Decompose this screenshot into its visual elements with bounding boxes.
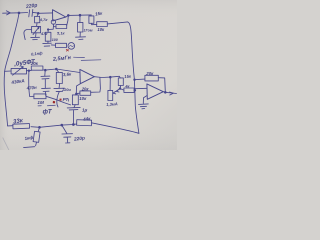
capacitor 1u — [67, 107, 80, 124]
feedback 20k U3 — [135, 78, 145, 81]
wiper arrows — [113, 89, 120, 94]
resistor 3,6k — [56, 69, 58, 72]
resistor R1 4,7k — [37, 13, 38, 16]
capacitor 220u left — [42, 88, 51, 95]
resistor 15k stage3 — [119, 76, 120, 78]
wire fb resistor to circle — [53, 24, 56, 27]
capacitor under 1Mk — [43, 41, 52, 46]
wire stub to R 1Mk row — [48, 27, 53, 30]
resistor 10k stage1 — [92, 23, 97, 25]
T overline strokes — [38, 104, 55, 107]
inverting node circle U1 — [51, 20, 55, 24]
short stroke line — [74, 56, 85, 58]
resistor 15k stage1 — [90, 15, 92, 16]
resistor 1kf bottom — [38, 127, 39, 131]
svg-text:47к: 47к — [40, 31, 48, 36]
svg-text:1,3мА: 1,3мА — [106, 101, 118, 107]
ground under 1Gom — [76, 32, 86, 40]
bottom rail left — [8, 125, 13, 127]
svg-text:1μ: 1μ — [82, 107, 88, 112]
svg-text:фТ: фТ — [43, 108, 53, 115]
input wire — [3, 12, 19, 14]
output wire U1 — [66, 15, 91, 17]
output wire U2 — [94, 76, 119, 77]
node junction — [37, 12, 39, 14]
svg-text:20к: 20к — [145, 71, 154, 76]
bottom wire to right — [92, 123, 139, 134]
svg-text:4,7к: 4,7к — [39, 17, 49, 22]
capacitor 220p bottom — [62, 125, 73, 143]
node input junction — [18, 12, 20, 14]
diagonal wire with test points — [46, 96, 71, 105]
svg-text:100: 100 — [52, 38, 58, 42]
wire — [27, 69, 32, 71]
feedback resistor 5,1k — [56, 25, 67, 29]
generator circle — [68, 43, 75, 50]
red tick mark — [66, 49, 69, 51]
op-amp U2 — [80, 69, 94, 83]
feedback drop U2 — [91, 77, 101, 92]
resistor 1Gom vertical — [79, 15, 81, 22]
pot box — [108, 90, 113, 100]
wire R1 to trimmer — [36, 23, 38, 26]
svg-text:1М: 1М — [37, 100, 44, 105]
inverting stem U2 — [76, 84, 80, 94]
svg-text:20к: 20к — [30, 61, 39, 66]
resistor box row2 — [56, 43, 67, 47]
svg-text:1Гом: 1Гом — [84, 28, 93, 32]
resistor 33k — [13, 124, 30, 129]
red test point dot 2 — [60, 99, 62, 101]
resistor 4k — [120, 89, 124, 91]
paper crease bottom left — [3, 138, 9, 151]
left rail — [4, 13, 19, 126]
resistor 1Mk vertical — [47, 30, 49, 33]
svg-text:3,6к: 3,6к — [63, 71, 73, 77]
drop to pot — [109, 77, 111, 90]
svg-text:10к: 10к — [79, 96, 87, 101]
wire to op-amp U1 input — [38, 12, 52, 14]
long stroke line — [81, 59, 101, 62]
bottom rail wires — [31, 124, 77, 127]
capacitor 470n — [41, 70, 50, 88]
wire row to generator — [51, 44, 55, 46]
output wire U3 with arrow — [163, 92, 176, 94]
plus input stem and ground U3 — [139, 96, 149, 109]
capacitor 220u — [54, 88, 65, 107]
trimmer resistor 47k — [32, 26, 41, 32]
wire — [45, 69, 56, 70]
wire rail to U3 inverting input — [135, 87, 147, 89]
resistor 20k mid — [31, 66, 43, 70]
wire to C1 — [19, 12, 28, 14]
node junction mid — [44, 69, 46, 71]
mid wire left — [5, 70, 12, 72]
svg-text:10к: 10к — [97, 27, 105, 32]
wire top right going down (rail) — [107, 22, 139, 133]
svg-text:5,1к: 5,1к — [57, 31, 66, 36]
resistor 1M — [34, 94, 46, 99]
wire C1 to node — [33, 11, 38, 14]
resistor 10k stage2 — [72, 95, 78, 105]
svg-text:220u: 220u — [61, 88, 71, 92]
feedback resistor 20k U2 — [80, 91, 91, 95]
ground under trimmer — [31, 33, 40, 40]
input arrowhead — [6, 11, 10, 15]
paper background — [0, 0, 177, 150]
wire to U2 — [56, 69, 80, 73]
feedback wire U1 — [67, 15, 69, 25]
svg-text:470н: 470н — [25, 85, 37, 91]
op-amp U1 — [53, 10, 66, 21]
capacitor C1 220p — [29, 9, 33, 16]
red test point dot 1 — [53, 101, 56, 104]
svg-text:20к: 20к — [81, 86, 90, 91]
resistor 44k — [77, 120, 92, 126]
trimmer 430kA — [11, 68, 26, 74]
op-amp U3 — [147, 84, 163, 99]
